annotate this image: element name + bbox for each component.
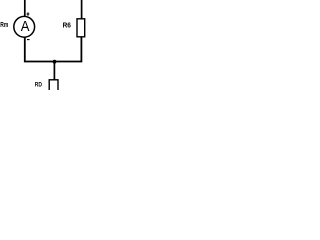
ammeter Rm circle bbox=[14, 16, 35, 37]
svg-text:A: A bbox=[21, 19, 30, 35]
svg-text:R6: R6 bbox=[63, 21, 71, 30]
plus polarity mark bbox=[27, 12, 30, 15]
wire ammeter bottom, corner, bottom horizontal, right riser bbox=[25, 37, 82, 62]
wire stub to RD bbox=[53, 62, 55, 81]
svg-text:RD: RD bbox=[35, 82, 42, 89]
resistor RD body (cut off at image bottom) bbox=[49, 80, 58, 94]
junction node dot bbox=[53, 60, 57, 64]
wire top feed to R6 bbox=[81, 0, 83, 19]
minus polarity mark bbox=[27, 39, 30, 41]
resistor R6 body bbox=[77, 19, 85, 37]
svg-text:Rm: Rm bbox=[0, 20, 8, 29]
wire top feed to ammeter bbox=[24, 0, 26, 17]
